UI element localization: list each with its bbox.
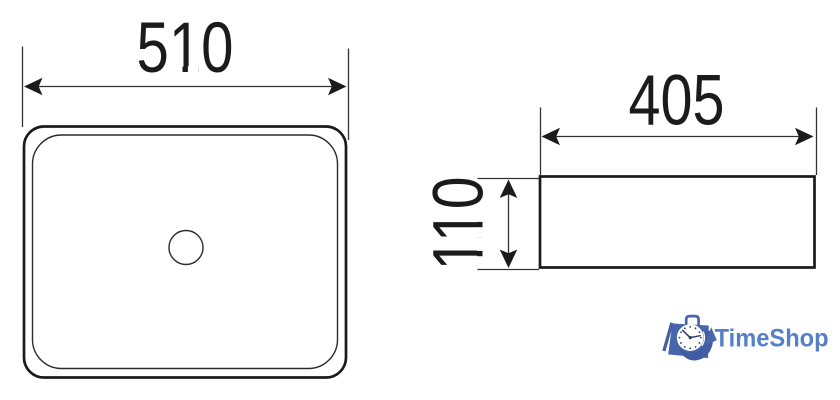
svg-text:TimeShop: TimeShop [715,326,829,353]
arrowhead right (510) [328,78,347,96]
extension line right of 405 dimension [816,108,818,176]
TimeShop logo: white sliver between clock rim and swoosh tip [702,332,705,346]
dimension line 510 [26,86,345,88]
mask: erase foot serif of digit 1 in 510 (right wing) [188,66,198,73]
TimeShop logo: clock tick marks [679,326,702,349]
mask: erase foot serifs of digits 1 in rotated 110 [477,211,484,222]
top view: inner basin rim [33,135,338,369]
svg-text:405: 405 [629,62,725,141]
mask: erase foot serif of digit 1 in 510 (left wing) [172,66,183,73]
arrowhead down (110) [500,250,518,269]
svg-text:510: 510 [137,9,234,88]
extension line bottom of 110 dimension [478,269,540,271]
side view: basin profile rectangle [540,177,815,268]
dimension line 405 [543,136,812,138]
arrowhead left (510) [24,78,43,96]
TimeShop logo: clock hands [683,330,701,337]
svg-text:110: 110 [420,177,499,271]
arrowhead up (110) [500,180,518,199]
arrowhead right (405) [795,128,814,146]
drain hole [169,231,203,265]
extension line left of 405 dimension [540,108,542,176]
extension line left of 510 dimension [22,47,24,128]
TimeShop logo: swoosh arrowhead [704,327,717,346]
extension line top of 110 dimension [478,178,540,180]
TimeShop logo: swoosh arc [678,330,713,360]
TimeShop logo: clock face [677,324,704,351]
TimeShop logo: back flap stripe [664,323,672,351]
TimeShop logo: bag handle [686,316,698,327]
extension line right of 510 dimension [348,49,350,141]
arrowhead left (405) [542,128,561,146]
top view: outer basin outline [24,127,346,378]
TimeShop logo: bag body [669,324,708,357]
dimension line 110 (vertical) [508,182,510,265]
TimeShop logo: clock center dot [689,336,692,339]
